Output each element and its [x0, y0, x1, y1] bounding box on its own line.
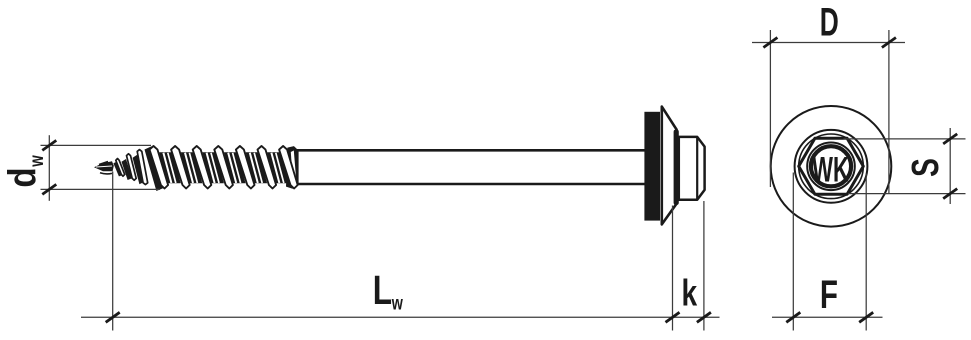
smooth shank [297, 150, 647, 184]
thread crest [279, 146, 298, 189]
WK mark [812, 151, 849, 189]
label k [682, 272, 698, 314]
dimension S lines [844, 128, 966, 204]
hex head front [799, 138, 864, 194]
thread root band [289, 152, 297, 183]
svg-text:D: D [820, 0, 839, 45]
svg-text:w: w [391, 293, 404, 314]
svg-text:WK: WK [812, 151, 849, 189]
inner ring thick [811, 146, 851, 186]
thread crest [171, 146, 190, 189]
flange circle (F) [795, 130, 868, 203]
tip flute [113, 161, 123, 176]
EPDM washer [644, 112, 660, 221]
cone band 1 [122, 159, 133, 180]
metal flange washer [662, 107, 677, 225]
label S [905, 158, 947, 177]
threaded shank [145, 146, 306, 191]
thread root band [202, 152, 224, 183]
thread crest [258, 146, 277, 189]
dimension D lines [752, 30, 905, 194]
svg-text:d: d [0, 167, 44, 187]
drill tip [94, 161, 114, 174]
washer outer circle (D) [771, 106, 892, 227]
thread root band [159, 152, 181, 183]
label d_w [0, 155, 48, 188]
dimension L_w and k lines [81, 172, 720, 331]
svg-text:S: S [905, 158, 947, 177]
label D [820, 0, 839, 45]
svg-text:k: k [682, 272, 698, 314]
thread root band [246, 152, 268, 183]
label L_w [373, 267, 404, 314]
thread crest [193, 146, 212, 189]
hex head side [679, 137, 705, 200]
thread crest [214, 146, 233, 189]
svg-text:L: L [373, 267, 392, 313]
head flange face [674, 130, 679, 206]
thread root band [224, 152, 246, 183]
thread root band [267, 152, 289, 183]
cone band 2 [133, 155, 144, 185]
label F [820, 273, 838, 317]
dimension d_w lines [41, 135, 161, 201]
inner ring outer [807, 143, 855, 191]
thread root band [181, 152, 203, 183]
thread cone [113, 150, 160, 188]
thread crest [236, 146, 255, 189]
cone crest [116, 159, 125, 177]
thread end band [286, 146, 299, 189]
svg-text:F: F [820, 273, 838, 317]
dimension F lines [772, 173, 883, 331]
cone crest [137, 150, 148, 185]
thread start dark band [145, 146, 164, 191]
cone crest [127, 154, 137, 180]
hex circumscribed circle [799, 134, 864, 199]
thread crest [150, 146, 169, 189]
svg-text:w: w [26, 155, 47, 168]
